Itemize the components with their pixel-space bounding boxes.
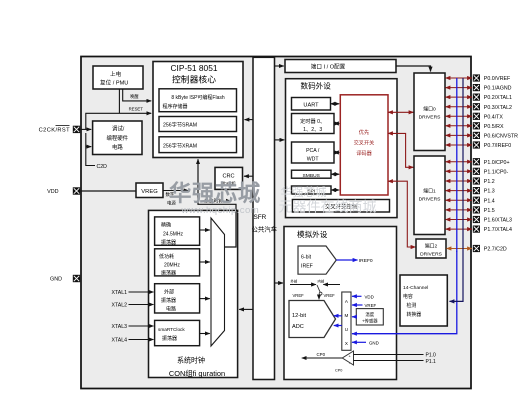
PCA/WDT box [292,142,335,163]
svg-text:数字: 数字 [166,191,175,198]
wire P0.6 pin [446,134,473,136]
wire port I/O config to port0 drivers [396,66,431,72]
svg-text:VREG: VREG [141,189,158,195]
svg-text:转换器: 转换器 [407,311,422,318]
svg-text:编程硬件: 编程硬件 [107,134,129,142]
svg-text:GND: GND [50,277,62,283]
svg-text:低功耗: 低功耗 [159,253,174,260]
wire crossbar to port1 drivers [388,133,414,167]
wire XTAL4 [129,339,154,341]
svg-text:6-bit: 6-bit [301,255,312,261]
svg-text:唤醒: 唤醒 [130,93,139,100]
svg-text:XTAL1: XTAL1 [112,290,128,296]
temperature sensor box [356,309,383,325]
pin P0.0/VREF [473,74,511,82]
wire WAKE [123,89,152,101]
system clock configuration box [149,210,238,378]
wire pins to capacitive sense [450,78,464,301]
svg-text:P0.1/AGND: P0.1/AGND [484,86,512,92]
wire P0.2 pin [446,96,473,98]
wire system clock to core [198,159,236,247]
chip outer boundary [81,57,471,389]
svg-text:256字节SRAM: 256字节SRAM [163,121,197,129]
wire P1.6 pin [446,219,473,221]
svg-text:检测: 检测 [407,302,417,309]
svg-text:P0.7/IREF0: P0.7/IREF0 [484,143,511,149]
pin P1.7/XTAL4 [473,226,512,234]
svg-text:电路: 电路 [166,305,176,312]
wire XTAL2 [129,304,154,306]
svg-text:P0.3/XTAL2: P0.3/XTAL2 [484,105,512,111]
14-channel capacitive sense converter [400,275,447,326]
wire osc2 to mux [200,261,210,263]
svg-text:模拟外设: 模拟外设 [297,229,328,239]
svg-text:电容: 电容 [403,293,413,300]
svg-text:外部: 外部 [164,288,174,295]
XRAM block [159,137,237,153]
svg-text:SFR: SFR [254,214,267,221]
wire P0.4 pin [446,115,473,117]
svg-text:振荡器: 振荡器 [162,335,177,342]
wire into debug box lower [86,146,91,148]
svg-text:系统时钟: 系统时钟 [177,356,205,365]
wire VDD to VREG [80,190,135,192]
svg-text:XTAL2: XTAL2 [112,303,128,309]
svg-text:DRIVERS: DRIVERS [420,252,442,258]
svg-text:CIP-51 8051: CIP-51 8051 [170,63,217,73]
pin P0.1/AGND [473,84,512,92]
wire timers to crossbar [334,123,339,125]
UART box [292,98,331,111]
pin VDD [47,187,80,195]
svg-text:VREF: VREF [324,293,336,298]
wire P1.3 pin [446,190,473,192]
regulator VREG [136,183,163,198]
svg-text:振荡器: 振荡器 [161,297,176,304]
svg-text:ADC: ADC [292,324,304,330]
svg-text:上电: 上电 [110,70,122,78]
svg-text:CP0: CP0 [335,369,342,373]
pin P0.3/XTAL2 [473,103,512,111]
SMBus box [292,170,332,179]
svg-text:发动机: 发动机 [221,181,236,188]
pin P1.0/CP0+ [473,158,510,166]
wire P0.5 pin [446,125,473,127]
svg-text:P0.5/RX: P0.5/RX [484,124,504,130]
svg-text:PCA /: PCA / [306,148,320,154]
svg-text:P1.1: P1.1 [426,359,437,365]
wire osc3 to mux [200,298,210,300]
pin P0.7/IREF0 [473,141,511,149]
wire SFR bus to digital peripherals [275,139,285,141]
port I/O configuration box [285,60,396,73]
wire VREG digital power output [163,190,189,192]
wire P1.0 pin [446,161,473,163]
svg-text:M: M [344,313,348,318]
port 2 drivers [416,239,446,258]
pin P1.6/XTAL3 [473,216,512,224]
pin P0.5/RX [473,122,504,130]
analog peripherals box [284,227,397,380]
AMUX bar [342,292,351,350]
wire SPI to crossbar [331,189,339,191]
flash memory block [159,89,237,112]
svg-text:+传感器: +传感器 [362,318,378,325]
svg-text:P1.4: P1.4 [484,198,495,204]
svg-text:VREF: VREF [365,303,377,308]
svg-text:内部: 内部 [318,278,325,283]
wire P1.5 pin [446,209,473,211]
svg-text:GND: GND [369,341,379,346]
svg-text:12-bit: 12-bit [292,313,306,319]
VREF selector switch [290,278,340,299]
CIP-51 core box U-CORE [153,62,243,158]
pin P0.6/CNVSTR [473,132,518,140]
svg-text:CP0: CP0 [317,352,326,357]
wire SFR bus to clock configuration [239,308,253,310]
pin P1.1/CP0- [473,168,509,176]
pin P1.5 [473,206,495,214]
wire P1.4 pin [446,199,473,201]
svg-text:电路: 电路 [112,143,123,151]
svg-text:端口1: 端口1 [423,188,436,195]
svg-text:P0.4/TX: P0.4/TX [484,114,504,120]
SFR bus bar [252,57,278,379]
svg-text:P1.0/CP0+: P1.0/CP0+ [484,160,510,166]
svg-text:振荡器: 振荡器 [161,239,176,246]
low power 20MHz oscillator [155,249,200,276]
svg-text:精确: 精确 [161,222,171,229]
svg-text:VREF: VREF [293,293,305,298]
clock mux [211,218,225,346]
crossbar control box [292,200,389,213]
wire crossbar to port0 drivers [388,111,414,113]
svg-text:C2D: C2D [97,164,108,170]
wire P1.7 pin [446,228,473,230]
svg-text:数码外设: 数码外设 [301,81,332,91]
pin P2.7/C2D [473,245,507,253]
svg-text:系统时钟: 系统时钟 [204,197,223,204]
svg-text:SPI: SPI [307,189,315,195]
svg-text:P0.6/CNVSTR: P0.6/CNVSTR [484,134,518,140]
svg-text:8 kByte ISP可编程Flash: 8 kByte ISP可编程Flash [171,94,225,101]
debug / programming hardware box [93,121,142,155]
svg-text:VDD: VDD [365,295,374,300]
svg-text:DRIVERS: DRIVERS [419,197,441,203]
wire RESET net [86,113,151,129]
wire P0.1 pin [446,87,473,89]
wire temp sensor to AMUX [352,316,356,318]
wire comparator input P1.0 [354,354,424,356]
svg-text:控制器核心: 控制器核心 [172,74,216,85]
svg-text:VDD: VDD [47,189,58,195]
svg-text:RESET: RESET [129,106,144,111]
svg-text:WDT: WDT [307,157,320,163]
wire SFR bus to core [245,119,254,121]
svg-text:P1.5: P1.5 [484,208,495,214]
svg-text:14-Channel: 14-Channel [403,285,428,291]
svg-text:调试/: 调试/ [112,125,125,133]
svg-text:C2CK/RST: C2CK/RST [39,128,70,134]
timers box [292,114,335,134]
wire P0.3 pin [446,106,473,108]
svg-text:smaRTClock: smaRTClock [158,327,185,332]
wire C2D stub [86,133,95,166]
priority crossbar decoder U-XBAR [340,95,388,195]
svg-text:公共汽车: 公共汽车 [252,225,278,234]
wire port pins analog input to AMUX [352,251,457,334]
wire AMUX to ADC lower [334,325,342,327]
svg-text:端口0: 端口0 [423,106,436,113]
svg-text:端口 I / O配置: 端口 I / O配置 [311,63,346,71]
pin GND [50,275,80,283]
svg-text:温度: 温度 [365,311,374,318]
svg-text:P1.0: P1.0 [426,353,437,359]
svg-text:24.5MHz: 24.5MHz [163,232,184,238]
digital peripherals box [286,79,398,218]
wire VDD input to AMUX [352,295,362,297]
svg-text:译码器: 译码器 [356,149,372,157]
smaRTClock oscillator [155,320,200,345]
pin P1.2 [473,177,495,185]
svg-text:端口2: 端口2 [425,243,438,250]
power-on reset / PMU U-PMU [93,66,143,89]
svg-text:256字节XRAM: 256字节XRAM [163,141,197,149]
svg-text:20MHz: 20MHz [164,263,180,269]
wire VREF input to AMUX [352,304,363,306]
svg-text:CON组fi guration: CON组fi guration [169,369,225,378]
wire crossbar to port2 drivers [388,181,416,247]
SPI box [292,186,332,195]
wire SFR bus to analog peripherals [275,282,284,284]
svg-text:IREF: IREF [301,264,313,270]
wire P0.0 pin [446,77,473,79]
wire P2.7 pin [447,248,473,250]
6-bit IREF block [298,246,336,274]
svg-text:程序存储器: 程序存储器 [163,103,188,110]
port 0 drivers [414,73,445,151]
wire osc1 to mux [200,229,210,231]
wire SFR bus to port I/O config [275,65,284,67]
svg-text:IREF0: IREF0 [359,258,373,264]
svg-text:UART: UART [303,102,319,108]
wire P1.1 pin [446,170,473,172]
svg-text:定时器 0、: 定时器 0、 [300,117,325,125]
svg-text:P1.6/XTAL3: P1.6/XTAL3 [484,218,512,224]
svg-text:P2.7/C2D: P2.7/C2D [484,247,507,253]
svg-text:优先: 优先 [359,128,369,136]
svg-text:P1.7/XTAL4: P1.7/XTAL4 [484,227,512,233]
watermark [169,180,377,216]
pin P1.4 [473,197,495,205]
port 1 drivers [414,156,445,235]
svg-text:P0.2/XTAL1: P0.2/XTAL1 [484,95,512,101]
wire comparator input P1.1 [354,360,424,362]
wire SMBus to crossbar [331,173,339,175]
external oscillator circuit [155,284,200,313]
wire C2CK pin to debug box [80,128,91,130]
wire AMUX to ADC upper [334,315,342,317]
svg-text:U: U [345,327,348,332]
svg-text:P1.1/CP0-: P1.1/CP0- [484,169,509,175]
pin P0.2/XTAL1 [473,94,512,102]
wire P0.7 pin [446,144,473,146]
svg-text:XTAL4: XTAL4 [112,338,128,344]
svg-text:X: X [345,341,348,346]
svg-text:DRIVERS: DRIVERS [419,115,441,121]
wire UART to crossbar [331,103,340,105]
pin C2CK/RST [39,126,81,134]
svg-text:1、2、3: 1、2、3 [303,127,322,133]
wire PMU to reset line [118,89,120,113]
wire osc4 to mux [200,333,210,335]
comparator CP0 [342,351,353,365]
svg-text:SMBUS: SMBUS [302,173,320,179]
wire SFR bus to CRC [244,175,253,177]
svg-text:外部: 外部 [291,278,298,283]
wire XTAL3 [129,325,154,327]
svg-text:XTAL3: XTAL3 [112,324,128,330]
wire XTAL1 [129,291,154,293]
svg-text:电源: 电源 [167,200,176,207]
svg-text:P0.0/VREF: P0.0/VREF [484,76,511,82]
pin P0.4/TX [473,113,504,121]
CRC engine box [215,167,243,189]
svg-text:振荡器: 振荡器 [161,269,176,276]
svg-text:P1.2: P1.2 [484,179,495,185]
pin P1.3 [473,187,495,195]
wire analog pin rail to AMUX [456,78,458,252]
svg-text:交叉开关控制: 交叉开关控制 [325,202,357,210]
svg-text:P1.3: P1.3 [484,189,495,195]
wire CP0 output [302,357,343,359]
svg-text:交叉开关: 交叉开关 [354,139,375,147]
wire P1.2 pin [446,180,473,182]
precision 24.5MHz oscillator [155,217,200,246]
wire IREF0 output [336,259,357,261]
svg-text:复位 / PMU: 复位 / PMU [100,79,128,87]
SRAM block [159,117,237,132]
12-bit ADC block U-ADC [289,301,336,338]
svg-text:CRC: CRC [222,174,234,180]
wire GND input to AMUX [352,341,366,343]
wire PCA to crossbar [334,152,339,154]
